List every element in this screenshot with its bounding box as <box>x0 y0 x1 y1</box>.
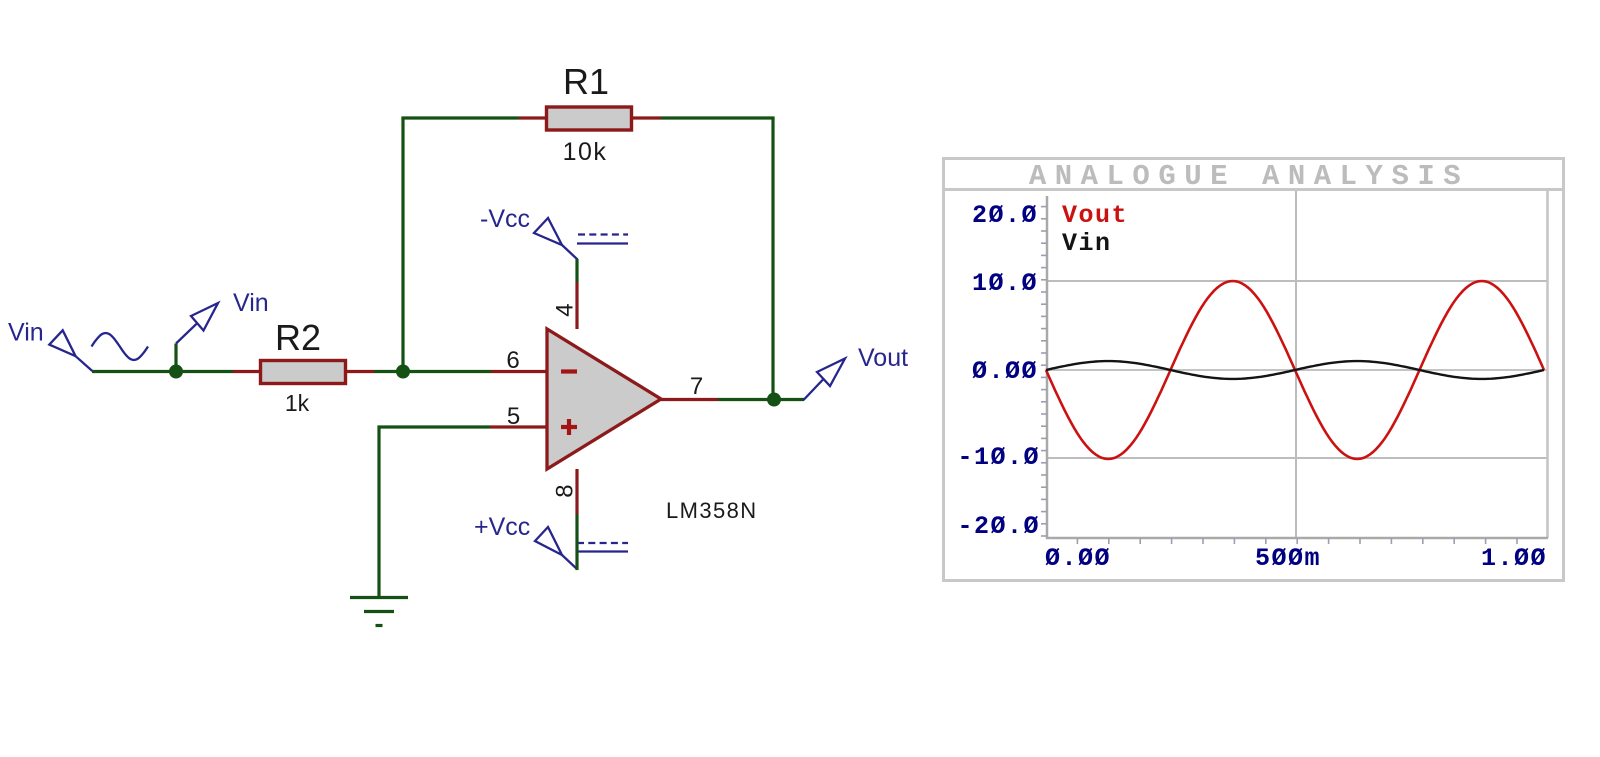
label Vin (source) <box>8 319 44 347</box>
svg-text:6: 6 <box>506 347 519 374</box>
node junction A (input) <box>169 365 183 379</box>
pin 5 number <box>507 403 520 430</box>
label R2 <box>275 317 321 358</box>
svg-text:LM358N: LM358N <box>666 498 758 523</box>
y axis ticks <box>1041 207 1047 536</box>
svg-text:Vin: Vin <box>233 289 269 317</box>
label +Vcc <box>474 513 530 541</box>
svg-text:ANALOGUE ANALYSIS: ANALOGUE ANALYSIS <box>1029 160 1469 193</box>
svg-text:1k: 1k <box>285 390 310 416</box>
legend Vin <box>1062 229 1112 258</box>
svg-text:Vout: Vout <box>1062 201 1128 230</box>
svg-text:R1: R1 <box>563 61 609 102</box>
svg-text:Ø.ØØ: Ø.ØØ <box>972 357 1038 386</box>
svg-text:+Vcc: +Vcc <box>474 513 530 541</box>
wire +Vcc to pin 8 <box>575 514 578 570</box>
legend Vout <box>1062 201 1128 230</box>
gridline 0 <box>1047 369 1548 371</box>
svg-text:Vin: Vin <box>1062 229 1112 258</box>
gridline +10 <box>1047 280 1548 282</box>
pin 8 number <box>551 484 578 497</box>
node junction B (feedback tap) <box>396 365 410 379</box>
trace Vin (black) <box>1046 361 1544 379</box>
wire output net <box>718 398 804 401</box>
x label 500m <box>1255 544 1321 573</box>
svg-text:Vin: Vin <box>8 319 44 347</box>
pin 5 lead <box>490 425 547 428</box>
svg-text:Ø.ØØ: Ø.ØØ <box>1045 544 1111 573</box>
pin 8 lead <box>575 469 578 514</box>
ground <box>350 598 408 626</box>
wire R1 left segment <box>401 116 519 119</box>
label 10k <box>563 138 608 166</box>
label -Vcc <box>480 205 530 233</box>
x label 0.00 <box>1045 544 1111 573</box>
x axis ticks <box>1077 538 1517 544</box>
wire feedback right vertical <box>771 118 774 400</box>
svg-text:10k: 10k <box>563 138 608 166</box>
power terminal -Vcc <box>534 218 628 260</box>
graph title separator <box>942 188 1565 191</box>
label LM358N <box>666 498 758 523</box>
label Vin (probe) <box>233 289 269 317</box>
resistor R2 <box>233 361 374 384</box>
gridline 500m vertical <box>1295 191 1297 538</box>
label R1 <box>563 61 609 102</box>
label 1k <box>285 390 310 416</box>
wire feedback left vertical <box>401 118 404 372</box>
y label 0.00 <box>972 357 1038 386</box>
svg-text:-Vcc: -Vcc <box>480 205 530 233</box>
probe Vin <box>176 303 218 371</box>
pin 7 number <box>690 373 703 400</box>
svg-text:7: 7 <box>690 373 703 400</box>
label Vout <box>858 344 908 372</box>
y label 10.0 <box>972 269 1038 298</box>
gridline -10 <box>1047 457 1548 459</box>
pin 4 number <box>551 303 578 316</box>
svg-text:Vout: Vout <box>858 344 908 372</box>
svg-text:R2: R2 <box>275 317 321 358</box>
pin 4 lead <box>575 282 578 329</box>
wire R2 to inverting input <box>374 370 491 373</box>
probe Vout <box>804 359 846 401</box>
graph panel frame <box>944 159 1564 581</box>
svg-text:8: 8 <box>551 484 578 497</box>
x label 1.00 <box>1481 544 1547 573</box>
y label -10.0 <box>957 443 1040 472</box>
svg-text:2Ø.Ø: 2Ø.Ø <box>972 201 1038 230</box>
plot right edge <box>1546 191 1549 538</box>
svg-text:1.ØØ: 1.ØØ <box>1481 544 1547 573</box>
pin 7 lead <box>661 398 718 401</box>
y axis line <box>1046 196 1049 539</box>
pin 6 lead <box>491 370 547 373</box>
svg-text:-2Ø.Ø: -2Ø.Ø <box>957 512 1040 541</box>
wire -Vcc to pin 4 <box>575 259 578 282</box>
wire R1 right segment <box>661 116 775 119</box>
x axis line <box>1046 537 1548 540</box>
svg-text:-1Ø.Ø: -1Ø.Ø <box>957 443 1040 472</box>
y label 20.0 <box>972 201 1038 230</box>
svg-text:4: 4 <box>551 303 578 316</box>
graph title ANALOGUE ANALYSIS <box>1029 160 1469 193</box>
resistor R1 <box>519 107 661 130</box>
wire non-inverting input <box>379 427 490 597</box>
wire input net left segment <box>92 370 233 373</box>
power terminal +Vcc <box>535 527 628 570</box>
op-amp U1 body <box>547 329 661 469</box>
trace Vout (red) <box>1046 281 1544 459</box>
y label -20.0 <box>957 512 1040 541</box>
svg-text:1Ø.Ø: 1Ø.Ø <box>972 269 1038 298</box>
generator Vin (AC source terminal) <box>49 330 148 371</box>
node junction C (output) <box>767 393 781 407</box>
svg-text:5: 5 <box>507 403 520 430</box>
svg-text:5ØØm: 5ØØm <box>1255 544 1321 573</box>
pin 6 number <box>506 347 519 374</box>
